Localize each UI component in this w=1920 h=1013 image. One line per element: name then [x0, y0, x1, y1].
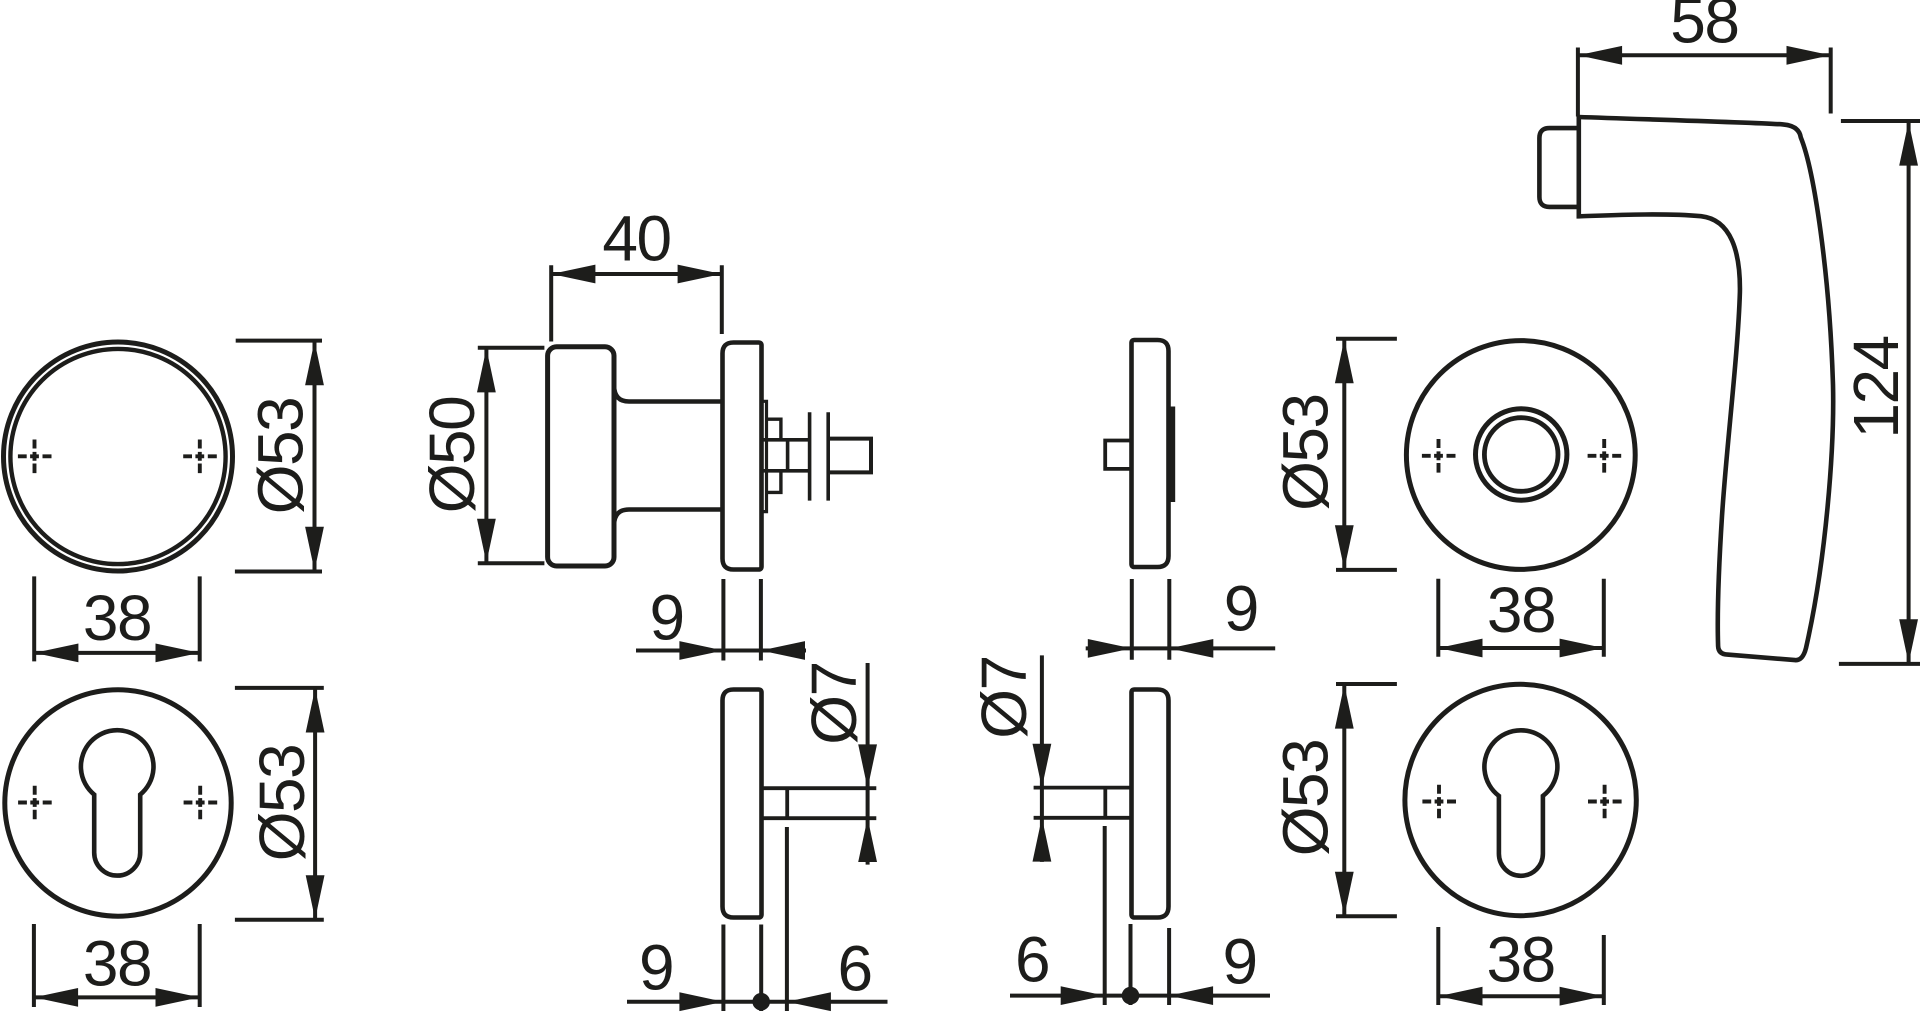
svg-text:9: 9 — [1223, 926, 1257, 998]
svg-text:9: 9 — [1224, 573, 1258, 645]
dimension 9 below handle rosette — [1086, 573, 1276, 660]
knob neck — [614, 386, 722, 525]
key rosette centre (side view) — [723, 690, 762, 918]
svg-text:Ø7: Ø7 — [798, 662, 870, 744]
dimension 38 below bottom-left escutcheon — [34, 924, 200, 1007]
spindle break line 1 — [808, 412, 812, 500]
dimension Ø50 left of knob grip — [416, 348, 544, 564]
rosette top-right (handle rose, face view) — [1406, 341, 1635, 570]
screw centre mark left of bottom-left escutcheon — [18, 786, 52, 820]
dimension 9 below knob rosette — [636, 579, 806, 661]
svg-text:38: 38 — [83, 928, 151, 1000]
escutcheon bottom-right (cylinder rose, face view) — [1405, 684, 1636, 915]
svg-text:Ø50: Ø50 — [416, 397, 488, 513]
key rosette right-centre (side view, mirrored) — [1132, 690, 1169, 918]
screw centre mark right of bottom-left escutcheon — [184, 786, 218, 820]
spindle hub upper step — [767, 419, 781, 440]
handle spindle boss — [1539, 128, 1578, 207]
flange edge line on handle rosette — [1170, 407, 1175, 503]
svg-text:38: 38 — [1487, 574, 1555, 646]
svg-text:124: 124 — [1840, 336, 1912, 438]
svg-text:Ø53: Ø53 — [246, 745, 318, 861]
handle rosette (side view, mirrored) — [1132, 340, 1169, 567]
screw centre mark left of top-right rosette — [1422, 439, 1456, 473]
knob grip (side view) — [548, 347, 614, 566]
dimension 38 below top-left rosette — [34, 576, 200, 662]
svg-text:6: 6 — [1015, 924, 1049, 996]
svg-text:40: 40 — [602, 203, 670, 275]
svg-text:58: 58 — [1670, 0, 1738, 57]
cylinder stub of mirrored key rosette + Ø7 extension lines — [1034, 788, 1130, 818]
cylinder stub of centre key rosette + Ø7 extension lines — [762, 788, 876, 818]
dimension Ø53 of bottom-right escutcheon — [1270, 684, 1397, 916]
svg-text:38: 38 — [83, 582, 151, 654]
dimension 58 above handle — [1578, 0, 1831, 117]
dimension 38 below top-right rosette — [1438, 574, 1604, 657]
dimension Ø53 of bottom-left escutcheon — [235, 688, 325, 920]
svg-text:Ø7: Ø7 — [968, 656, 1040, 738]
svg-text:Ø53: Ø53 — [1270, 394, 1342, 510]
knob rosette flange strip — [762, 401, 767, 511]
dimensions 6 and 9 below mirrored key rosette — [1010, 826, 1270, 1005]
euro profile keyhole of bottom-right escutcheon — [1484, 730, 1557, 876]
dimension 38 below bottom-right escutcheon — [1438, 924, 1604, 1006]
svg-text:Ø53: Ø53 — [245, 398, 317, 514]
dimension Ø53 of top-right rosette — [1270, 339, 1397, 570]
rosette top-left (plain round rose, face view) — [4, 342, 233, 571]
svg-text:38: 38 — [1487, 924, 1555, 996]
dimension Ø7 (centre key rosette) — [798, 662, 877, 864]
dimensions 9 and 6 below centre key rosette — [627, 827, 888, 1011]
spindle break line 2 — [826, 412, 830, 500]
dimension Ø7 (mirrored key rosette) — [968, 655, 1051, 862]
screw centre mark right of top-right rosette — [1588, 439, 1622, 473]
spindle far-side end — [830, 439, 872, 473]
knob rosette (side view) — [723, 343, 762, 570]
euro profile keyhole of bottom-left escutcheon — [81, 730, 154, 875]
dimension 124 right of handle — [1839, 121, 1920, 664]
handle lever (side view) — [1579, 117, 1833, 660]
escutcheon bottom-left (cylinder rose, face view) — [5, 690, 231, 916]
screw centre mark left of top-left rosette — [18, 440, 52, 474]
svg-text:9: 9 — [639, 932, 673, 1004]
svg-text:Ø53: Ø53 — [1270, 740, 1342, 856]
spindle square (near side) — [762, 440, 810, 471]
dimension 40 above knob — [551, 203, 722, 342]
screw centre mark left of bottom-right escutcheon — [1422, 785, 1456, 819]
spindle hub lower step — [767, 471, 781, 493]
svg-text:9: 9 — [649, 582, 683, 654]
spindle stub of handle rosette — [1105, 441, 1131, 469]
screw centre mark right of top-left rosette — [183, 440, 217, 474]
screw centre mark right of bottom-right escutcheon — [1588, 785, 1622, 819]
dimension Ø53 of top-left rosette — [235, 341, 324, 572]
svg-text:6: 6 — [838, 933, 872, 1005]
